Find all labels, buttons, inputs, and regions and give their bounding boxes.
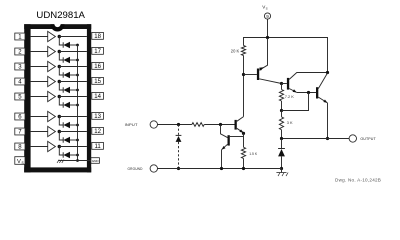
- transistor Q1 input: [235, 117, 244, 133]
- svg-text:Dwg. No. A-10,242B: Dwg. No. A-10,242B: [335, 177, 381, 182]
- pin 4 box: [15, 78, 25, 86]
- buffer driver A6: [48, 111, 56, 121]
- wire output 2 down to clamp diode: [59, 52, 63, 61]
- Vs supply terminal (pin 9): [264, 13, 270, 19]
- transistor Q3 predriver: [257, 38, 282, 84]
- OUTPUT terminal: [349, 135, 356, 142]
- rail right corner junction dot: [326, 71, 329, 74]
- pin GND box: [91, 158, 100, 164]
- svg-text:9: 9: [266, 14, 269, 19]
- transistor Q4 base wire: [282, 83, 287, 85]
- svg-text:S: S: [266, 7, 268, 11]
- wire pin 4 to buffer 4: [31, 81, 48, 83]
- transistor Q3 base wire: [244, 74, 257, 76]
- svg-text:16: 16: [94, 64, 101, 70]
- junction dot Q1 emitter node E1: [242, 132, 245, 135]
- svg-text:UDN2981A: UDN2981A: [36, 10, 85, 21]
- pin 16 box: [92, 62, 104, 70]
- output node dot channel 5: [58, 95, 62, 99]
- buffer driver A5: [48, 91, 56, 101]
- junction dot 1.5K at ground: [242, 167, 245, 170]
- output node dot channel 3: [58, 65, 62, 69]
- node N2 junction dot: [280, 109, 283, 112]
- pin 7 box: [15, 128, 25, 136]
- buffer driver A8: [48, 141, 56, 151]
- bus junction dot 7: [76, 139, 79, 142]
- pin 17 box: [92, 47, 104, 55]
- node X junction dot: [242, 73, 245, 76]
- bus junction dot 2: [76, 59, 79, 62]
- input clamp diode (dashed): [176, 125, 182, 169]
- clamp diode D1: [63, 42, 70, 48]
- bus junction dot 1: [76, 44, 79, 47]
- bus to ground-row junction dot: [76, 159, 79, 162]
- transistor Q5 output: [316, 73, 328, 103]
- junction dot Q5 base node: [307, 91, 310, 94]
- wire buffer 5 output to pin 14: [59, 96, 87, 98]
- svg-text:7.2 K: 7.2 K: [285, 94, 294, 99]
- pin 14 box: [92, 92, 104, 100]
- wire E1 to Q2 base: [230, 136, 244, 138]
- bus junction dot 3: [76, 74, 79, 77]
- bus junction dot 6: [76, 124, 79, 127]
- pin 15 box: [92, 77, 104, 85]
- wire output 1 down to clamp diode: [59, 37, 63, 46]
- clamp diode D3: [63, 72, 70, 78]
- pin 1 box: [15, 33, 25, 41]
- buffer driver A7: [48, 126, 56, 136]
- GROUND terminal: [150, 165, 157, 172]
- Vs rail wire: [244, 38, 328, 73]
- wire pin 5 to buffer 5: [31, 96, 48, 98]
- wire Q4 emitter to Q5 base: [297, 92, 316, 94]
- resistor 3K: [279, 111, 283, 139]
- clamp diode D2: [63, 57, 70, 63]
- wire output 7 down to clamp diode: [59, 132, 63, 141]
- resistor 20K: [241, 46, 245, 56]
- wire output 8 down to clamp diode: [59, 147, 63, 156]
- svg-text:12: 12: [94, 129, 101, 135]
- wire pin 1 to buffer 1: [31, 36, 48, 38]
- bus junction dot 4: [76, 89, 79, 92]
- junction dot Q2 collector tap: [219, 123, 222, 126]
- wire buffer 7 output to pin 12: [59, 131, 87, 133]
- bus junction dot 5: [76, 104, 79, 107]
- wire pin 7 to buffer 7: [31, 131, 48, 133]
- resistor 7.2K: [279, 84, 283, 111]
- wire buffer 8 output to pin 11: [59, 146, 87, 148]
- svg-text:1.5 K: 1.5 K: [249, 152, 258, 156]
- input wire: [158, 124, 192, 126]
- junction dot output node: [280, 137, 283, 140]
- svg-text:18: 18: [94, 34, 101, 40]
- wire diode D1 to common bus: [70, 44, 78, 46]
- svg-text:OUTPUT: OUTPUT: [360, 137, 376, 141]
- wire buffer 3 output to pin 16: [59, 66, 87, 68]
- common cathode bus wire: [77, 45, 79, 161]
- node N1 junction dot: [280, 82, 283, 85]
- clamp diode D4: [63, 87, 70, 93]
- clamp diode D8: [63, 152, 70, 158]
- svg-text:GND: GND: [92, 159, 100, 163]
- junction dot Q2 emitter at ground: [220, 167, 223, 170]
- substrate symbol: [57, 160, 64, 163]
- INPUT terminal: [150, 121, 157, 128]
- svg-text:20 K: 20 K: [231, 48, 240, 53]
- junction dot Q5 emitter at output: [326, 137, 329, 140]
- wire Vs terminal to rail: [267, 19, 269, 37]
- wire output 4 down to clamp diode: [59, 82, 63, 91]
- transistor Q4: [287, 73, 328, 93]
- svg-text:11: 11: [94, 144, 101, 150]
- wire diode D8 to common bus: [70, 154, 78, 156]
- output node dot channel 8: [58, 145, 62, 149]
- pin 5 box: [15, 93, 25, 101]
- Vs supply label: [262, 4, 267, 10]
- resistor 1.5K: [241, 147, 245, 168]
- wire diode D6 to common bus: [70, 124, 78, 126]
- svg-text:INPUT: INPUT: [125, 122, 138, 127]
- IC index notch: [51, 18, 65, 32]
- wire pin 3 to buffer 3: [31, 66, 48, 68]
- svg-text:14: 14: [94, 94, 101, 100]
- svg-text:GROUND: GROUND: [128, 167, 144, 171]
- junction dot diode anode at ground: [280, 167, 283, 170]
- output node dot channel 6: [58, 115, 62, 119]
- wire output 3 down to clamp diode: [59, 67, 63, 76]
- junction dot input diode tap: [177, 123, 180, 126]
- pin 13 box: [92, 112, 104, 120]
- pin 11 box: [92, 142, 104, 150]
- svg-text:V: V: [17, 159, 21, 165]
- svg-text:3 K: 3 K: [287, 120, 293, 125]
- wire pin 2 to buffer 2: [31, 51, 48, 53]
- pin Vs box: [15, 157, 25, 166]
- rail junction dot at Vs: [266, 36, 269, 39]
- pin 6 box: [15, 113, 25, 121]
- bus junction dot 8: [76, 154, 79, 157]
- output node dot channel 1: [58, 35, 62, 39]
- output wire: [282, 138, 350, 140]
- wire buffer 6 output to pin 13: [59, 116, 87, 118]
- output node dot channel 7: [58, 130, 62, 134]
- clamp diode D6: [63, 122, 70, 128]
- wire diode D7 to common bus: [70, 139, 78, 141]
- wire pin 8 to buffer 8: [31, 146, 48, 148]
- wire buffer 4 output to pin 15: [59, 81, 87, 83]
- junction dot diode at ground line: [177, 167, 180, 170]
- wire E1 down to 1.5K: [243, 133, 245, 147]
- clamp diode D output: [278, 139, 285, 169]
- input series resistor: [192, 123, 204, 127]
- wire base node down to N2: [282, 93, 309, 111]
- buffer driver A4: [48, 76, 56, 86]
- output node dot channel 4: [58, 80, 62, 84]
- buffer driver A3: [48, 61, 56, 71]
- svg-text:17: 17: [94, 49, 101, 55]
- output node dot channel 2: [58, 50, 62, 54]
- wire diode D4 to common bus: [70, 89, 78, 91]
- wire Q5 emitter to output line: [327, 103, 329, 139]
- IC package body outline: [24, 24, 91, 172]
- node X wire 20K to Q1 collector: [243, 56, 245, 117]
- clamp diode D7: [63, 137, 70, 143]
- wire output 6 down to clamp diode: [59, 117, 63, 126]
- wire buffer 1 output to pin 18: [59, 36, 87, 38]
- wire diode D3 to common bus: [70, 74, 78, 76]
- wire diode D2 to common bus: [70, 59, 78, 61]
- chassis ground symbol: [276, 169, 288, 177]
- wire diode D5 to common bus: [70, 104, 78, 106]
- pin 3 box: [15, 63, 25, 71]
- pin 8 box: [15, 143, 25, 151]
- svg-text:15: 15: [94, 79, 101, 85]
- wire output 5 down to clamp diode: [59, 97, 63, 106]
- pin 12 box: [92, 127, 104, 135]
- ground wire: [158, 168, 282, 170]
- pin 18 box: [92, 32, 104, 40]
- wire pin 6 to buffer 6: [31, 116, 48, 118]
- wire buffer 2 output to pin 17: [59, 51, 87, 53]
- substrate wire to GND pin: [58, 160, 91, 162]
- svg-text:13: 13: [94, 114, 101, 120]
- transistor Q2 clamp: [221, 125, 230, 169]
- wire resistor to Q1 base: [204, 124, 234, 126]
- buffer driver A2: [48, 46, 56, 56]
- pin 2 box: [15, 48, 25, 56]
- clamp diode D5: [63, 102, 70, 108]
- buffer driver A1: [48, 31, 56, 41]
